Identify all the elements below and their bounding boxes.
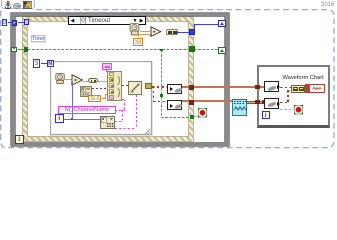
junction dot green mid	[160, 94, 163, 97]
waveform dotted wire upper	[152, 86, 167, 88]
toolbar tab	[1, 0, 35, 9]
right while loop	[257, 65, 330, 128]
shift register left green	[11, 47, 17, 52]
toolbar icon LabVIEW	[23, 1, 33, 9]
conditional terminal stop	[198, 108, 207, 118]
blue wire to right shift register	[194, 24, 219, 25]
event tunnel green left	[24, 47, 29, 52]
waveform chart terminal	[305, 84, 325, 93]
blue wire up to multiply	[72, 83, 73, 119]
right loop tunnel lower	[255, 100, 260, 105]
wire 30 to multiply	[138, 34, 150, 35]
thick waveform wire lower seg1	[182, 100, 236, 102]
clock function (for loop)	[55, 73, 66, 84]
event tunnel green right	[189, 46, 195, 52]
event tunnel waveform upper	[189, 85, 194, 90]
event structure border	[23, 17, 193, 141]
build waveform node	[107, 71, 122, 102]
snippet dashed border	[0, 0, 337, 150]
pink stub to build waveform	[106, 70, 107, 72]
Waveform Chart label	[283, 75, 324, 81]
wire 1E-6 to dt	[102, 98, 106, 99]
wire green sr to tunnel	[18, 49, 24, 50]
wire green tunnel to right sr	[194, 49, 218, 50]
orange wire clock to multiply	[140, 31, 150, 32]
numeric constant 3	[33, 59, 40, 68]
wait clock function (top)	[129, 23, 141, 36]
toolbar icon hand	[4, 1, 12, 10]
subVI write 1	[167, 84, 183, 95]
dotted wire subvi2 up	[280, 102, 288, 104]
multiply node (for loop)	[71, 74, 84, 86]
dotted wire subvi1 to build array	[280, 87, 292, 89]
conversion node 0101	[166, 29, 178, 36]
blue wire i to icon	[64, 119, 100, 120]
write waveform node	[128, 81, 142, 95]
while loop	[11, 13, 230, 147]
waveform attributes constant (pink node)	[102, 63, 112, 70]
event tunnel green bottom	[190, 115, 195, 120]
build array node	[291, 85, 305, 93]
shift register left blue	[12, 20, 18, 26]
event selector label [0] Timeout	[68, 16, 146, 25]
subVI read 2	[264, 98, 279, 109]
shift register right green	[218, 47, 227, 54]
pink wire channelname right	[115, 110, 125, 111]
Time label	[31, 35, 45, 42]
timestamp dotted wire	[92, 88, 107, 89]
junction dot blue	[71, 118, 74, 121]
subVI write 2	[167, 100, 182, 110]
iteration terminal i (for loop)	[55, 114, 64, 123]
pink wire up to build waveform	[124, 99, 125, 110]
express vi cyan box	[232, 99, 247, 116]
pink wire icon to write node	[115, 128, 136, 129]
wire shift register to tunnel	[18, 22, 24, 23]
green wire to stop	[280, 109, 295, 110]
orange wire multiply to capsule	[83, 81, 88, 82]
for loop tunnel (auto-index)	[145, 83, 152, 89]
wire 3 to N	[41, 63, 47, 64]
boolean wire bottom horizontal	[161, 117, 190, 118]
toolbar icon arrow	[13, 3, 21, 9]
capsule node	[88, 78, 99, 84]
conditional terminal stop (right loop)	[294, 105, 303, 115]
wire tunnel to conditional	[194, 116, 199, 117]
set attributes icon	[100, 116, 115, 129]
numeric constant 30	[133, 38, 143, 47]
iteration terminal i (outer while loop)	[15, 135, 24, 144]
NI_ChannelName string constant	[58, 106, 116, 114]
waveform branch vertical	[153, 86, 155, 101]
blue wire to tunnel	[177, 32, 190, 33]
boolean wire across event	[28, 49, 190, 50]
wire build waveform to write node	[122, 85, 128, 86]
wire 0 to shift register	[8, 22, 12, 23]
numeric constant 1E-6	[88, 95, 101, 102]
junction dot green top	[160, 49, 163, 52]
waveform dotted wire lower	[153, 101, 167, 103]
iteration terminal i (right loop)	[262, 111, 271, 120]
right loop tunnel upper	[255, 85, 260, 90]
subVI read 1	[264, 81, 279, 92]
orange wire capsule to build waveform	[98, 81, 107, 82]
thick waveform wire lower seg3	[246, 101, 265, 103]
shift register right blue	[218, 20, 226, 27]
for loop	[50, 61, 152, 135]
wire 30 up	[138, 34, 139, 37]
multiply node (top)	[150, 26, 162, 38]
thick waveform wire upper	[182, 86, 264, 88]
numeric constant 0	[2, 19, 7, 26]
for loop resize glyph	[144, 128, 152, 135]
event tunnel blue left	[24, 19, 30, 25]
junction dot lower wire	[262, 100, 266, 104]
2016 version text	[321, 2, 334, 8]
event tunnel blue right	[189, 29, 195, 35]
blue wire up from tunnel	[194, 24, 195, 30]
event tunnel waveform lower	[189, 100, 194, 105]
pink wire down to icon	[122, 110, 123, 122]
boolean wire vertical branch	[161, 50, 162, 117]
orange wire clock to multiply (for)	[65, 79, 72, 80]
datetime icon	[80, 86, 92, 97]
count terminal N	[47, 60, 54, 67]
